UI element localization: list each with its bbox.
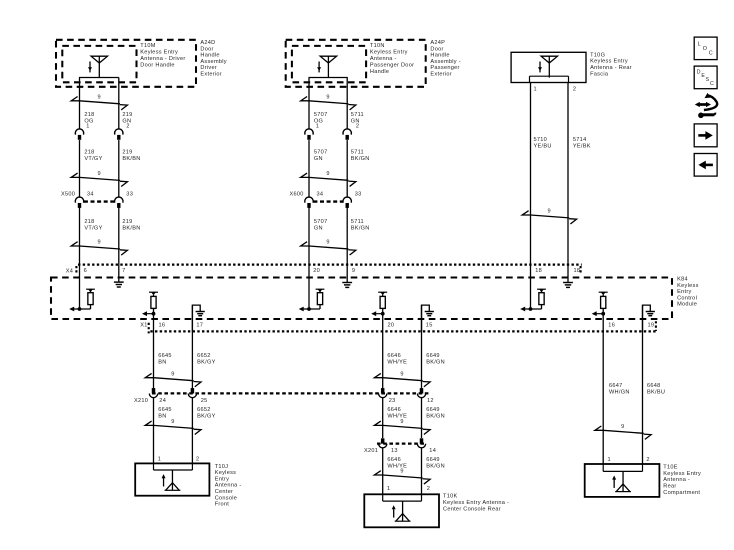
svg-text:Passenger: Passenger — [430, 65, 459, 71]
svg-text:Keyless: Keyless — [677, 283, 699, 289]
svg-text:16: 16 — [608, 322, 615, 328]
svg-text:C: C — [709, 50, 713, 56]
svg-text:BK/GN: BK/GN — [351, 225, 370, 231]
svg-text:Door: Door — [430, 46, 443, 52]
svg-text:19: 19 — [648, 322, 655, 328]
svg-text:T10J: T10J — [215, 464, 229, 470]
svg-text:X210: X210 — [134, 398, 148, 404]
svg-text:T10G: T10G — [590, 52, 605, 58]
svg-text:12: 12 — [427, 398, 434, 404]
svg-text:Handle: Handle — [200, 53, 219, 59]
svg-text:Assembly: Assembly — [200, 59, 227, 65]
svg-text:33: 33 — [126, 192, 133, 198]
svg-text:6646: 6646 — [387, 457, 401, 463]
svg-text:Exterior: Exterior — [200, 71, 222, 77]
svg-text:9: 9 — [97, 171, 100, 177]
svg-text:218: 218 — [84, 112, 94, 118]
svg-text:C: C — [710, 81, 714, 87]
svg-text:5710: 5710 — [534, 137, 548, 143]
svg-text:9: 9 — [400, 469, 403, 475]
svg-text:Antenna -: Antenna - — [215, 483, 242, 489]
svg-text:WH/GN: WH/GN — [609, 389, 630, 395]
svg-text:13: 13 — [391, 448, 398, 454]
svg-text:9: 9 — [352, 268, 355, 274]
svg-text:9: 9 — [326, 240, 329, 246]
svg-text:BK/GN: BK/GN — [426, 359, 445, 365]
svg-text:Passenger Door: Passenger Door — [370, 62, 414, 68]
svg-text:BN: BN — [158, 413, 166, 419]
svg-text:Door: Door — [200, 46, 213, 52]
svg-text:5714: 5714 — [573, 137, 587, 143]
svg-text:5707: 5707 — [314, 219, 328, 225]
svg-text:OG: OG — [314, 118, 323, 124]
svg-text:15: 15 — [426, 322, 433, 328]
svg-text:218: 218 — [84, 219, 94, 225]
svg-text:9: 9 — [326, 171, 329, 177]
svg-text:9: 9 — [548, 209, 551, 215]
svg-text:1: 1 — [86, 124, 89, 130]
svg-text:L: L — [698, 41, 701, 47]
svg-text:Antenna -: Antenna - — [370, 56, 397, 62]
svg-text:23: 23 — [389, 398, 396, 404]
svg-text:219: 219 — [122, 219, 132, 225]
svg-text:BK/GY: BK/GY — [197, 413, 216, 419]
svg-text:Keyless Entry Antenna -: Keyless Entry Antenna - — [443, 500, 509, 506]
svg-text:20: 20 — [388, 322, 395, 328]
svg-text:5711: 5711 — [351, 219, 364, 225]
svg-text:WH/YE: WH/YE — [387, 413, 407, 419]
svg-text:Keyless: Keyless — [215, 470, 237, 476]
svg-text:WH/YE: WH/YE — [387, 359, 407, 365]
svg-text:A24P: A24P — [430, 40, 445, 46]
svg-text:1: 1 — [387, 486, 390, 492]
svg-text:6647: 6647 — [609, 383, 623, 389]
svg-text:Module: Module — [677, 302, 697, 308]
svg-text:Antenna - Driver: Antenna - Driver — [140, 56, 185, 62]
svg-text:9: 9 — [326, 95, 329, 101]
svg-text:5707: 5707 — [314, 112, 328, 118]
svg-text:5711: 5711 — [351, 112, 364, 118]
svg-text:Keyless Entry: Keyless Entry — [140, 50, 178, 56]
svg-text:BK/BN: BK/BN — [122, 156, 140, 162]
svg-text:34: 34 — [317, 192, 324, 198]
svg-text:X201: X201 — [364, 448, 378, 454]
svg-text:GN: GN — [314, 225, 323, 231]
svg-text:6652: 6652 — [197, 353, 211, 359]
svg-text:T10M: T10M — [140, 43, 155, 49]
svg-text:Assembly -: Assembly - — [430, 59, 460, 65]
svg-text:Rear: Rear — [663, 484, 676, 490]
svg-text:1: 1 — [534, 86, 537, 92]
svg-text:2: 2 — [573, 86, 576, 92]
svg-text:GN: GN — [122, 118, 131, 124]
svg-text:GN: GN — [314, 156, 323, 162]
svg-text:BK/BN: BK/BN — [122, 225, 140, 231]
svg-text:9: 9 — [171, 419, 174, 425]
svg-text:9: 9 — [97, 240, 100, 246]
svg-text:A24D: A24D — [200, 40, 215, 46]
svg-text:6649: 6649 — [426, 353, 440, 359]
svg-text:18: 18 — [574, 268, 581, 274]
svg-text:5707: 5707 — [314, 150, 328, 156]
svg-text:6649: 6649 — [426, 407, 440, 413]
svg-text:X600: X600 — [290, 192, 304, 198]
svg-text:14: 14 — [429, 448, 436, 454]
svg-text:6: 6 — [84, 268, 87, 274]
svg-text:2: 2 — [646, 457, 649, 463]
svg-text:Antenna -: Antenna - — [663, 477, 690, 483]
svg-text:VT/GY: VT/GY — [84, 156, 102, 162]
svg-text:9: 9 — [621, 424, 624, 430]
svg-text:20: 20 — [313, 268, 320, 274]
svg-text:O: O — [703, 46, 707, 52]
svg-text:Compartment: Compartment — [663, 490, 700, 496]
svg-text:S: S — [706, 77, 710, 83]
svg-text:YE/BU: YE/BU — [534, 143, 552, 149]
svg-text:Front: Front — [215, 502, 230, 508]
svg-text:WH/YE: WH/YE — [387, 463, 407, 469]
svg-text:6646: 6646 — [387, 353, 401, 359]
svg-text:Fascia: Fascia — [590, 71, 609, 77]
svg-text:6649: 6649 — [426, 457, 440, 463]
svg-text:25: 25 — [201, 398, 208, 404]
svg-text:1: 1 — [158, 456, 161, 462]
svg-text:VT/GY: VT/GY — [84, 225, 102, 231]
svg-text:Entry: Entry — [677, 289, 691, 295]
svg-text:OG: OG — [84, 118, 93, 124]
svg-text:Keyless Entry: Keyless Entry — [370, 50, 408, 56]
svg-text:16: 16 — [159, 322, 166, 328]
svg-text:BK/BU: BK/BU — [647, 389, 665, 395]
svg-text:Console: Console — [215, 495, 237, 501]
svg-text:2: 2 — [126, 124, 129, 130]
svg-text:D: D — [697, 69, 701, 75]
svg-text:BK/GY: BK/GY — [197, 359, 216, 365]
svg-text:BK/GN: BK/GN — [426, 463, 445, 469]
svg-text:2: 2 — [196, 456, 199, 462]
svg-text:6648: 6648 — [647, 383, 661, 389]
svg-text:219: 219 — [122, 150, 132, 156]
svg-text:1: 1 — [316, 124, 319, 130]
svg-text:Keyless Entry: Keyless Entry — [590, 59, 628, 65]
svg-text:2: 2 — [356, 124, 359, 130]
svg-text:Exterior: Exterior — [430, 71, 452, 77]
svg-text:Driver: Driver — [200, 65, 217, 71]
svg-text:Door Handle: Door Handle — [140, 62, 175, 68]
svg-text:219: 219 — [122, 112, 132, 118]
svg-text:Center: Center — [215, 489, 233, 495]
svg-text:9: 9 — [400, 371, 403, 377]
svg-text:2: 2 — [427, 486, 430, 492]
svg-text:BK/GN: BK/GN — [426, 413, 445, 419]
svg-text:24: 24 — [159, 398, 166, 404]
svg-text:YE/BK: YE/BK — [573, 143, 591, 149]
svg-text:218: 218 — [84, 150, 94, 156]
svg-text:17: 17 — [196, 322, 203, 328]
svg-text:BN: BN — [158, 359, 166, 365]
svg-text:6646: 6646 — [387, 407, 401, 413]
svg-text:Center Console Rear: Center Console Rear — [443, 506, 501, 512]
svg-text:6645: 6645 — [158, 407, 172, 413]
svg-text:Handle: Handle — [370, 69, 389, 75]
svg-text:Entry: Entry — [215, 476, 229, 482]
svg-text:X4: X4 — [66, 269, 73, 275]
svg-text:X500: X500 — [61, 192, 75, 198]
svg-text:18: 18 — [535, 268, 542, 274]
svg-text:9: 9 — [97, 95, 100, 101]
svg-text:7: 7 — [122, 268, 125, 274]
svg-text:1: 1 — [608, 457, 611, 463]
svg-text:BK/GN: BK/GN — [351, 156, 370, 162]
svg-text:34: 34 — [87, 192, 94, 198]
svg-text:6652: 6652 — [197, 407, 211, 413]
svg-text:T10N: T10N — [370, 43, 385, 49]
svg-text:6645: 6645 — [158, 353, 172, 359]
svg-text:GN: GN — [351, 118, 360, 124]
svg-text:5711: 5711 — [351, 150, 364, 156]
svg-text:Antenna - Rear: Antenna - Rear — [590, 65, 632, 71]
svg-text:Control: Control — [677, 295, 697, 301]
svg-text:K84: K84 — [677, 277, 688, 283]
svg-text:33: 33 — [355, 192, 362, 198]
svg-text:T10E: T10E — [663, 465, 678, 471]
svg-text:T10K: T10K — [443, 494, 458, 500]
svg-text:Keyless Entry: Keyless Entry — [663, 471, 701, 477]
svg-text:9: 9 — [171, 371, 174, 377]
svg-text:X1: X1 — [140, 322, 147, 328]
svg-text:Handle: Handle — [430, 53, 449, 59]
svg-text:9: 9 — [400, 419, 403, 425]
